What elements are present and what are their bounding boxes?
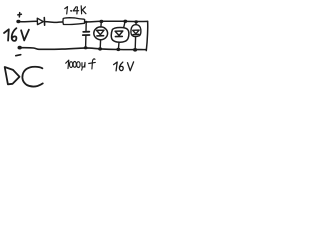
minus terminal label <box>16 55 21 56</box>
wire bottom rail <box>21 48 147 50</box>
node junction LED2 top <box>123 20 127 23</box>
wire right side vertical <box>146 21 147 50</box>
node junction cap top <box>85 21 88 24</box>
node junction LED2 bottom <box>116 48 120 51</box>
label 16V output <box>114 62 134 71</box>
wire cap top stub <box>85 22 87 31</box>
wire diode to resistor <box>45 21 63 24</box>
capacitor C1 <box>83 32 90 35</box>
wire cap bottom stub <box>85 36 87 48</box>
wire resistor to right corner <box>85 20 148 23</box>
wire LED1 bottom stub <box>99 40 101 49</box>
wire + terminal to diode <box>19 20 37 23</box>
node - terminal blob <box>18 46 22 50</box>
wire LED2 top stub <box>124 22 126 28</box>
node junction cap bottom <box>84 46 88 49</box>
LED D4 <box>131 25 141 37</box>
node junction LED3 bottom <box>133 48 137 52</box>
label 16V source <box>4 28 29 41</box>
node junction LED1 top <box>99 20 103 23</box>
wire LED1 top stub <box>100 22 102 27</box>
node junction LED1 bottom <box>98 47 102 50</box>
label 1.4K <box>65 6 86 14</box>
resistor R1 <box>63 18 85 25</box>
wire LED3 bottom stub <box>134 37 136 49</box>
LED D2 <box>94 27 108 40</box>
label 1000uF <box>66 59 96 70</box>
label DC <box>5 67 43 87</box>
node + terminal blob <box>16 20 20 23</box>
node junction LED3 top <box>134 20 138 23</box>
plus terminal label <box>18 13 22 17</box>
diode D1 <box>37 18 44 26</box>
wire LED3 top stub <box>135 22 137 25</box>
LED D3 <box>111 27 129 42</box>
wire LED2 bottom stub <box>117 42 120 49</box>
